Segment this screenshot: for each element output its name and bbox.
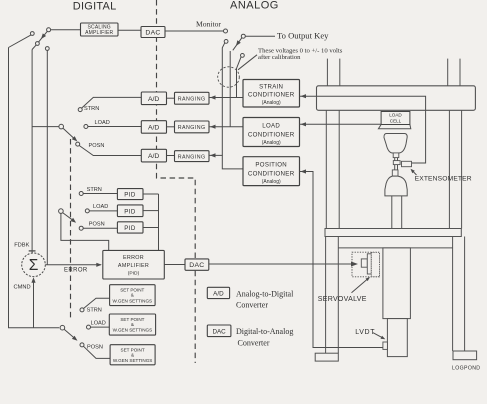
svg-text:DAC: DAC — [189, 262, 204, 269]
frame right column — [448, 110, 450, 228]
wire switch to scaling amplifier — [51, 29, 81, 31]
wire frame left leg inner — [337, 237, 339, 354]
lower specimen grip — [385, 176, 407, 196]
servovalve pilot block — [361, 259, 367, 267]
box position conditioner — [243, 157, 300, 186]
node contact STRN PID — [79, 192, 83, 196]
node tap contact 1 (position) — [224, 40, 228, 44]
box setpoint 2 load — [109, 314, 155, 335]
svg-text:W.GEN SETTINGS: W.GEN SETTINGS — [113, 298, 153, 303]
frame right leg — [452, 237, 454, 352]
svg-text:PID: PID — [124, 225, 136, 232]
svg-text:ANALOG: ANALOG — [230, 0, 279, 12]
servovalve dotted enclosure — [352, 252, 380, 277]
arrowhead ERROR into error amplifier — [96, 263, 102, 267]
arrowhead into ranging1 — [210, 95, 216, 99]
wire frame right column inner — [461, 110, 463, 228]
svg-text:CMND: CMND — [14, 285, 31, 291]
legend box DAC — [207, 325, 231, 337]
wire PID outputs bus to error amplifier — [158, 194, 160, 250]
svg-text:Digital-to-Analog: Digital-to-Analog — [236, 327, 293, 336]
wire error amplifier to DAC — [164, 264, 185, 266]
svg-text:after calibration: after calibration — [258, 54, 301, 61]
node monitor switch pivot — [47, 28, 51, 32]
svg-text:CONDITIONER: CONDITIONER — [248, 131, 295, 138]
svg-text:(Analog): (Analog) — [262, 140, 281, 146]
svg-text:LVDT: LVDT — [355, 329, 375, 336]
wire DAC to servovalve — [209, 263, 351, 265]
legend box A/D — [207, 287, 229, 298]
actuator cylinder — [383, 248, 411, 319]
wire position: LVDT to position conditioner — [300, 172, 384, 348]
svg-text:A/D: A/D — [148, 124, 159, 131]
svg-text:STRN: STRN — [87, 187, 102, 193]
wire leader servovalve label — [352, 278, 370, 293]
node setpoint select wiper pivot — [60, 325, 65, 330]
box RANGING 3 — [175, 151, 210, 162]
box setpoint 1 strain — [110, 285, 156, 306]
upper specimen grip — [384, 134, 407, 154]
node monitor output contact — [224, 29, 228, 33]
svg-text:DAC: DAC — [212, 328, 226, 335]
wire load: load cell to load conditioner — [300, 123, 382, 125]
wire CMND rail: monitor contact down to setpoint switch pivot — [9, 48, 60, 328]
svg-text:RANGING: RANGING — [178, 154, 206, 160]
servovalve manifold — [371, 252, 379, 276]
wire frame left column stub inner — [339, 59, 341, 86]
wire feedback select wiper arm — [63, 128, 76, 140]
svg-text:Monitor: Monitor — [196, 20, 221, 29]
arrowhead into position conditioner — [301, 169, 307, 173]
svg-text:POSN: POSN — [89, 221, 105, 227]
box PID 1 strain gains — [117, 189, 143, 200]
dashed ellipse around calibration tap wires — [218, 67, 240, 87]
svg-text:DIGITAL: DIGITAL — [73, 0, 117, 12]
svg-text:ERROR: ERROR — [64, 267, 88, 273]
node feedback select wiper pivot — [59, 124, 64, 129]
svg-text:Σ: Σ — [29, 257, 39, 274]
dashed boundary line left section — [70, 139, 72, 320]
svg-text:AMPLIFIER: AMPLIFIER — [85, 30, 113, 36]
arrowhead LVDT leader — [381, 336, 386, 340]
arrowhead PID wiper — [71, 218, 77, 223]
wire tap 1 down to position signal — [222, 43, 225, 156]
svg-text:LOAD: LOAD — [93, 204, 108, 210]
wire ADC2 to ranging2 — [167, 126, 175, 128]
wire STRN contact to setpoint1 — [84, 298, 110, 308]
wire PID3 output — [143, 227, 159, 229]
wire DAC to monitor contact — [165, 30, 224, 32]
svg-text:POSITION: POSITION — [255, 162, 287, 169]
box ADC3 position A/D — [141, 149, 166, 162]
wire PID select wiper arm — [63, 213, 75, 222]
wire POSN contact to ADC3 — [79, 146, 141, 156]
svg-text:LOAD: LOAD — [262, 122, 280, 129]
wire load conditioner to ranging2 — [209, 126, 243, 128]
box load conditioner — [243, 118, 300, 147]
wire leader LVDT label — [373, 333, 384, 339]
svg-text:RANGING: RANGING — [178, 96, 206, 102]
wire PID1 output — [143, 193, 159, 195]
upper grip neck — [393, 153, 399, 158]
wire STRN contact to PID1 — [83, 193, 117, 195]
box PID 3 position gains — [117, 222, 143, 233]
wire PID2 output — [143, 210, 159, 212]
wire leader note to tap wires — [238, 55, 257, 70]
svg-text:A/D: A/D — [148, 96, 159, 103]
arrowhead monitor wiper — [41, 33, 46, 39]
arrowhead output key wiper — [236, 40, 241, 46]
wire frame right leg inner — [464, 237, 466, 352]
node PID select wiper pivot — [59, 209, 64, 214]
machine crosshead beam — [317, 86, 476, 111]
LVDT housing — [387, 319, 407, 357]
svg-text:To Output Key: To Output Key — [277, 30, 329, 40]
wire strain conditioner to ranging1 — [209, 97, 243, 99]
svg-text:DAC: DAC — [145, 29, 160, 36]
node contact LOAD PID — [85, 209, 89, 213]
wire to output key — [245, 35, 275, 37]
svg-text:FDBK: FDBK — [14, 242, 29, 248]
extensometer clamp left — [393, 161, 400, 165]
arrowhead setpoint wiper — [72, 336, 78, 341]
wire LOAD contact to ADC2 — [88, 126, 141, 128]
specimen rod right edge — [397, 158, 399, 171]
svg-text:LOAD: LOAD — [95, 120, 110, 126]
svg-text:PID: PID — [124, 208, 136, 215]
load cell lower flange — [378, 125, 410, 129]
box ADC2 load A/D — [141, 121, 166, 134]
frame left leg — [325, 237, 327, 354]
box load cell — [381, 112, 410, 125]
wire FDBK rail down to summing junction — [31, 50, 33, 253]
dashed digital/analog boundary line — [157, 0, 196, 363]
node contact STRN (strain signal) — [78, 108, 82, 112]
svg-text:(PID): (PID) — [128, 271, 140, 277]
node contact CMND (to scaling amp switch) — [30, 32, 34, 36]
wire monitor switch wiper arm — [38, 31, 48, 43]
actuator rod left edge — [391, 196, 393, 229]
wire ADC3 to ranging3 — [167, 155, 175, 157]
svg-text:W.GEN SETTINGS: W.GEN SETTINGS — [113, 358, 153, 363]
wire position conditioner to ranging3 — [209, 155, 243, 169]
wire frame right column stub inner — [459, 59, 461, 86]
svg-text:&: & — [131, 353, 134, 358]
wire STRN contact to ADC1 — [82, 97, 142, 108]
node contact STRN setpoint — [80, 308, 84, 312]
wire PID pivot down to error amplifier — [61, 213, 109, 250]
arrowhead tick FDBK into summing junction — [29, 250, 36, 252]
arrowhead into load conditioner — [301, 122, 307, 126]
box ADC1 strain A/D — [141, 92, 166, 105]
actuator rod right edge — [401, 196, 403, 229]
frame left column stub above crosshead — [326, 59, 328, 86]
svg-text:&: & — [131, 293, 134, 298]
box error amplifier (PID) — [103, 250, 165, 279]
svg-text:(Analog): (Analog) — [262, 100, 281, 106]
box RANGING 1 — [175, 92, 210, 104]
node contact LOAD (load signal) — [84, 125, 88, 129]
svg-text:STRN: STRN — [87, 307, 102, 313]
svg-text:A/D: A/D — [213, 291, 224, 298]
svg-text:Converter: Converter — [236, 301, 268, 310]
node contact POSN setpoint — [80, 343, 84, 347]
wire POSN contact to PID3 — [83, 227, 117, 229]
extensometer clamp right — [402, 161, 412, 166]
frame left column — [325, 110, 327, 228]
arrowhead CMND into summing junction — [31, 277, 35, 283]
arrowhead into ranging3 — [210, 153, 216, 157]
platform line under table — [338, 247, 453, 249]
wire POSN contact to setpoint3 — [84, 346, 111, 358]
svg-text:Analog-to-Digital: Analog-to-Digital — [236, 289, 294, 298]
svg-text:PID: PID — [124, 192, 136, 199]
wire leader extensometer label — [412, 170, 417, 175]
wire ADC1 to ranging1 — [167, 97, 175, 99]
box RANGING 2 — [175, 121, 210, 133]
machine left foot — [315, 353, 338, 361]
servovalve body plate — [367, 254, 371, 274]
box PID 2 load gains — [117, 205, 143, 217]
svg-text:LOAD: LOAD — [389, 113, 402, 118]
machine right foot — [453, 351, 477, 360]
wire scaling amplifier to DAC — [118, 29, 141, 31]
svg-text:CONDITIONER: CONDITIONER — [248, 92, 295, 99]
arrowhead feedback wiper — [72, 136, 78, 141]
lower grip neck — [392, 170, 398, 176]
node contact LOAD setpoint — [87, 325, 91, 329]
summing junction S1 — [22, 253, 46, 277]
svg-text:(Analog): (Analog) — [262, 179, 281, 185]
arrowhead extensometer leader — [411, 169, 415, 174]
wire LOAD contact to setpoint2 — [91, 326, 110, 328]
svg-text:RANGING: RANGING — [178, 125, 206, 131]
node contact POSN PID — [79, 226, 83, 230]
svg-text:CELL: CELL — [390, 118, 402, 123]
arrowhead into ranging2 — [210, 125, 216, 129]
wire ERROR summing junction to error amplifier — [45, 264, 101, 266]
wire ERROR rail down to error wire — [46, 50, 48, 264]
wire tap 2 down to load signal — [229, 51, 231, 127]
svg-text:AMPLIFIER: AMPLIFIER — [118, 263, 149, 269]
svg-text:W.GEN SETTINGS: W.GEN SETTINGS — [113, 328, 153, 333]
LVDT connector nub — [383, 342, 388, 349]
box scaling amplifier U1 — [81, 23, 119, 36]
specimen rod left edge — [394, 158, 396, 171]
wire contact to CMND feedback riser — [9, 35, 32, 48]
box setpoint 3 position — [110, 345, 155, 365]
node contact FDBK — [36, 42, 40, 46]
svg-text:A/D: A/D — [148, 153, 159, 160]
wire frame left column inner — [338, 110, 340, 228]
arrowhead servovalve leader — [366, 277, 371, 281]
wire contact to FDBK riser — [32, 45, 36, 50]
svg-text:CONDITIONER: CONDITIONER — [248, 170, 295, 177]
arrowhead into strain conditioner — [301, 94, 307, 98]
wire CMND up into summing junction — [33, 279, 35, 328]
machine table beam — [325, 229, 461, 237]
wire tap 3 down to strain signal — [237, 57, 242, 98]
wire feedback select pivot link — [32, 126, 59, 128]
svg-text:STRAIN: STRAIN — [259, 84, 283, 91]
node tap contact 3 (strain) — [241, 54, 245, 58]
svg-text:LOAD: LOAD — [91, 320, 106, 326]
svg-text:&: & — [131, 322, 134, 327]
node contact POSN (position signal) — [76, 142, 80, 146]
box DAC D1 (monitor) — [141, 27, 165, 38]
arrowhead into servovalve — [351, 262, 358, 267]
box DAC D2 (servo) — [185, 259, 209, 270]
svg-text:ERROR: ERROR — [123, 255, 144, 261]
svg-text:Converter: Converter — [238, 339, 270, 348]
svg-text:EXTENSOMETER: EXTENSOMETER — [415, 175, 472, 182]
wire strain: extensometer to strain conditioner — [300, 96, 426, 163]
node contact ERROR — [45, 47, 49, 51]
wire LOAD contact to PID2 — [89, 210, 117, 212]
svg-text:LOGPOND: LOGPOND — [452, 365, 480, 371]
node output key switch pivot — [241, 34, 245, 38]
svg-text:POSN: POSN — [89, 143, 105, 149]
wire setpoint wiper arm — [64, 329, 76, 339]
svg-text:SERVOVALVE: SERVOVALVE — [318, 296, 367, 303]
wire output key wiper arm — [233, 38, 242, 51]
box strain conditioner — [243, 80, 300, 108]
svg-text:STRN: STRN — [84, 106, 99, 112]
frame right column stub above crosshead — [447, 59, 449, 86]
svg-text:POSN: POSN — [87, 345, 103, 351]
